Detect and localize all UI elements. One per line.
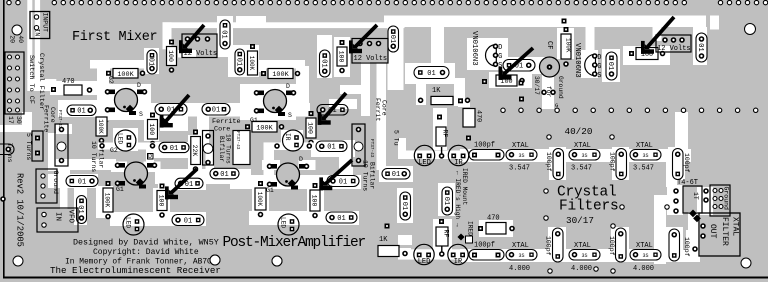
capacitor .01 vert b	[147, 50, 158, 74]
wire 100pf verts row1	[549, 147, 566, 180]
LED q3	[123, 214, 144, 235]
svg-text:IR: IR	[454, 258, 463, 266]
svg-text:← IREDʼs High →: ← IREDʼs High →	[454, 171, 461, 227]
svg-text:100pf: 100pf	[609, 152, 616, 172]
svg-text:01: 01	[337, 215, 345, 223]
capacitor stub left edge	[0, 144, 14, 155]
crystal XTAL2 3.547	[569, 150, 600, 161]
svg-text:3.547: 3.547	[571, 165, 592, 173]
svg-text:4.000: 4.000	[509, 265, 530, 273]
jumper box near RF2	[466, 236, 473, 243]
svg-text:01: 01	[220, 171, 228, 179]
svg-text:100pf: 100pf	[683, 237, 690, 257]
wire 01 col vert	[74, 188, 87, 225]
arrow A8	[319, 160, 352, 190]
svg-text:The Electroluminescent Receive: The Electroluminescent Receiver	[50, 265, 221, 276]
resistor 100K mixer1 lower	[96, 117, 107, 143]
wire arrowhead patch mixer1	[160, 114, 188, 131]
wire mixer2 right vert	[296, 66, 309, 104]
wire q4 riser	[264, 150, 275, 176]
wire 100pf verts row2	[548, 227, 566, 262]
svg-text:LED: LED	[418, 258, 431, 266]
wire vnfet2 blob	[581, 50, 598, 78]
wire 100 q4 vert	[307, 183, 324, 219]
svg-text:G: G	[597, 63, 601, 71]
capacitor 100pf row1 long	[469, 150, 504, 161]
svg-text:100: 100	[338, 51, 345, 63]
capacitor .01 q3 lower mid	[175, 178, 203, 189]
svg-text:IN: IN	[54, 212, 62, 221]
svg-text:100K: 100K	[256, 124, 273, 132]
pad vn1 drain2	[519, 97, 524, 102]
transistor VN0106N3 second	[585, 54, 602, 80]
capacitor .01 vert 400	[400, 192, 411, 220]
wire 470-2 vert	[458, 100, 470, 107]
wire mixer2 100K band	[250, 60, 305, 69]
svg-text:3S: 3S	[581, 253, 587, 259]
wire row2 right elbow	[686, 230, 700, 262]
svg-text:01: 01	[696, 43, 704, 51]
transistor Q2 mixer	[255, 90, 296, 117]
wire .01 b4 band	[311, 140, 355, 157]
resistor 100 q4	[310, 183, 320, 218]
wire vert 100 resistor mixer1	[144, 115, 159, 141]
pad band mixer1 right	[151, 144, 155, 148]
capacitor .01 vert vn2	[606, 52, 617, 80]
capacitor .01 vert c mixer2	[234, 49, 244, 75]
svg-text:1K: 1K	[432, 87, 441, 95]
transistor Q3 mixer	[116, 162, 157, 189]
svg-text:G1: G1	[116, 186, 124, 193]
wire q3 riser	[146, 148, 154, 164]
svg-text:D: D	[299, 156, 303, 163]
wire .01-CF band	[499, 57, 545, 74]
wire vert vnfet2 D	[586, 27, 595, 55]
capacitor .01 q4 out	[326, 212, 357, 223]
transistor Q4 mixer	[268, 163, 309, 190]
wire under 12V box1	[178, 50, 196, 58]
wire vert below .01 mixer2	[197, 116, 209, 145]
capacitor .01 q4 top	[316, 141, 347, 152]
wire vnfet1 blob	[467, 38, 508, 70]
svg-text:100pf: 100pf	[474, 242, 495, 250]
svg-text:100pf: 100pf	[474, 142, 495, 150]
svg-text:01: 01	[78, 178, 86, 186]
mount hole bottom-mid1	[210, 255, 220, 265]
svg-text:Ground: Ground	[557, 76, 564, 99]
svg-text:01: 01	[327, 144, 335, 152]
capacitor .01 q4 mid	[327, 176, 359, 187]
resistor 100 a	[167, 40, 177, 73]
svg-text:100pf: 100pf	[545, 236, 552, 256]
svg-text:INPUT: INPUT	[42, 13, 49, 33]
svg-text:LED: LED	[280, 217, 287, 228]
svg-text:01: 01	[392, 171, 400, 179]
svg-text:FT37-43: FT37-43	[57, 110, 62, 129]
svg-text:RF: RF	[442, 130, 449, 138]
svg-text:30: 30	[15, 116, 22, 124]
wire 100K top band mixer1	[90, 60, 148, 69]
wire vert 101 stadium 696	[693, 27, 707, 65]
mount hole top-left	[12, 25, 22, 35]
svg-text:01: 01	[442, 197, 450, 205]
wire 100K-561 back	[557, 28, 574, 59]
svg-text:XTAL: XTAL	[731, 217, 740, 236]
wire col 01-442	[438, 183, 455, 216]
wire 100K q3 vert	[96, 186, 113, 218]
svg-text:G2: G2	[107, 76, 114, 84]
svg-text:100pf: 100pf	[545, 152, 552, 172]
svg-text:17: 17	[7, 116, 14, 124]
capacitor .01 mixer1 out	[155, 104, 187, 116]
resistor 100 vn2	[629, 48, 665, 60]
transistor VN0106N3 first	[486, 44, 503, 70]
svg-text:XTAL: XTAL	[574, 142, 591, 150]
wire q3 leg patch right	[144, 162, 161, 173]
power connector 12 Volts first	[182, 34, 217, 58]
wire band 01-383	[379, 166, 413, 182]
svg-text:FT37-43: FT37-43	[235, 131, 240, 150]
capacitor .01 left of 1K2	[382, 169, 410, 180]
power connector 12 Volts second	[352, 39, 388, 64]
capacitor .01 vert 696	[696, 33, 707, 62]
ferrite core T2 mid strips	[352, 124, 365, 166]
arrow A7	[165, 169, 197, 199]
wire led-ir 40/20 corner	[398, 138, 406, 152]
capacitor .01 mixer2 in	[202, 104, 230, 116]
svg-text:Ground: Ground	[52, 171, 59, 195]
arrow A3	[349, 25, 377, 53]
capacitor .01 q3 out	[172, 215, 204, 226]
capacitor .01 to CF	[503, 60, 535, 72]
svg-text:3.547: 3.547	[633, 165, 654, 173]
wire rf2 vert	[433, 219, 452, 253]
resistor 100K mixer2 top	[261, 69, 300, 80]
wire band to arrow4	[329, 99, 357, 109]
arrow A4	[318, 93, 346, 125]
board bottom edge	[3, 277, 768, 279]
wire 12V3 up connector	[653, 26, 662, 41]
svg-text:01: 01	[427, 70, 435, 78]
svg-text:100K: 100K	[256, 192, 263, 207]
crystal XTAL2 4.000	[569, 250, 600, 261]
wire 470-3 back	[479, 220, 513, 237]
svg-text:3.547: 3.547	[509, 165, 530, 173]
pad band mixer2 right	[307, 144, 311, 148]
wire 100 box2 band	[623, 46, 670, 65]
capacitor .01 vert 442	[442, 187, 453, 215]
mount hole top-right	[745, 24, 756, 35]
svg-text:IRED: IRED	[467, 221, 474, 236]
capacitor .01 vert q3 col	[76, 196, 87, 224]
svg-text:Bifilar: Bifilar	[218, 136, 225, 162]
wire top rail band1	[163, 22, 405, 28]
power connector 12 Volts third	[656, 35, 691, 53]
svg-text:30/17: 30/17	[566, 215, 594, 226]
svg-text:Core: Core	[381, 100, 388, 116]
wire top right gap trace	[710, 16, 719, 30]
resistor 100K q3	[103, 181, 113, 219]
capacitor 100pf vert1 row1	[553, 149, 564, 180]
svg-text:Core: Core	[49, 107, 56, 123]
wire left low vert	[22, 112, 32, 132]
svg-text:100: 100	[307, 122, 314, 134]
svg-text:XTAL: XTAL	[636, 242, 653, 250]
resistor 100K vn	[561, 34, 571, 59]
svg-text:30/17: 30/17	[533, 76, 540, 95]
svg-text:01: 01	[184, 217, 192, 225]
svg-text:01: 01	[606, 62, 614, 70]
wire vert 100 12Vbox2	[334, 37, 350, 77]
wire ferrite down	[58, 160, 70, 176]
svg-text:XTAL: XTAL	[574, 242, 591, 250]
wire 40/20 right riser	[675, 112, 688, 152]
svg-text:40/20: 40/20	[565, 126, 593, 137]
svg-text:Crystal Filter: Crystal Filter	[37, 53, 45, 110]
svg-text:4.000: 4.000	[633, 265, 654, 273]
wire led-ir 30/17 corner	[398, 235, 412, 245]
transistor Q1 mixer	[106, 89, 147, 116]
svg-text:Post-MixerAmplifier: Post-MixerAmplifier	[223, 235, 366, 251]
wire LED mixer1 patch	[113, 128, 138, 151]
wire rf1 vert	[433, 108, 447, 150]
svg-text:IR: IR	[284, 133, 291, 141]
svg-text:10 Turns: 10 Turns	[90, 141, 97, 172]
wire mixer2 in band	[230, 103, 310, 117]
wire 12Vbox2 left verts	[361, 62, 370, 116]
svg-text:01: 01	[220, 30, 228, 38]
pad on top rail	[562, 19, 567, 24]
wire postamp1 bottom band	[110, 212, 206, 226]
svg-text:FT37-43: FT37-43	[369, 139, 374, 158]
wire ferrite-mixer band	[56, 124, 72, 134]
svg-text:LED: LED	[125, 217, 132, 228]
resistor 100K mixer1 top	[106, 69, 145, 79]
svg-text:Copyright: David White: Copyright: David White	[93, 248, 199, 257]
svg-text:LED: LED	[418, 159, 431, 167]
top hole row	[7, 0, 768, 4]
arrow A1	[179, 25, 204, 53]
capacitor 100pf vert2 row1	[616, 149, 627, 180]
resistor 22K	[191, 137, 201, 165]
svg-text:01: 01	[170, 145, 178, 153]
wire 1K2 to LED	[398, 248, 411, 259]
svg-text:CF: CF	[545, 41, 553, 49]
resistor RF choke second	[436, 227, 448, 246]
svg-text:12 Volts: 12 Volts	[657, 45, 691, 53]
svg-text:01: 01	[147, 58, 155, 66]
wire xtal row1 band	[460, 149, 691, 162]
svg-text:D: D	[137, 82, 141, 89]
svg-text:01: 01	[400, 202, 408, 210]
resistor RF choke first	[436, 127, 446, 146]
arrow A2	[160, 95, 189, 128]
wire CF ground col	[542, 74, 554, 109]
wire 470 band	[50, 81, 110, 95]
svg-text:S: S	[597, 72, 601, 80]
capacitor .01 mixer1 in	[67, 105, 96, 116]
resistor 100 mixer1	[148, 113, 158, 146]
pad diamond near RF2	[457, 233, 464, 240]
scattered holes	[544, 135, 669, 273]
wire filterout vert	[688, 212, 700, 258]
svg-text:RF: RF	[443, 230, 450, 238]
svg-text:3S: 3S	[581, 153, 587, 159]
mount hole bottom-left	[13, 256, 23, 266]
capacitor .01 vert a	[220, 20, 231, 49]
LED 40/20	[414, 145, 434, 167]
wire .01 vert 606	[602, 49, 620, 82]
resistor 100K q4	[255, 181, 266, 217]
svg-text:01: 01	[212, 107, 220, 115]
svg-text:01: 01	[234, 58, 242, 66]
wire xtal row2 band	[460, 249, 695, 262]
mount hole bottom-mid2	[272, 256, 282, 266]
resistor 100 mixer2	[306, 111, 316, 145]
wire t4 down vert	[654, 206, 666, 264]
wire top long rail right	[384, 16, 706, 28]
wire q4 leg patch right	[299, 160, 316, 170]
wire band mixer2 mid	[340, 85, 362, 94]
wire lower 01 band	[158, 177, 206, 190]
arrow A5	[499, 48, 534, 80]
mount hole bottom-mid2 top	[272, 256, 282, 266]
connector Ground right	[710, 185, 730, 216]
svg-text:100: 100	[167, 50, 174, 62]
wire vert 101 right of 12V box1	[217, 16, 233, 57]
wire vert to mixer band	[431, 27, 444, 65]
connector VFO IN	[37, 208, 78, 232]
wire left low elbow	[0, 125, 24, 132]
svg-text:01: 01	[77, 108, 85, 116]
wire IR mixer2 band	[264, 142, 314, 150]
wire ground band	[48, 159, 116, 170]
pad band mixer2 left	[275, 144, 279, 148]
svg-text:100: 100	[148, 123, 155, 135]
svg-text:Ground: Ground	[723, 187, 730, 211]
svg-text:01: 01	[185, 181, 193, 189]
svg-text:G: G	[555, 102, 558, 109]
wire postamp mid band	[230, 175, 361, 189]
svg-text:D: D	[597, 54, 601, 62]
connector XTAL FILTER OUT	[693, 213, 740, 256]
svg-text:Rev2 10/1/2005: Rev2 10/1/2005	[15, 173, 25, 247]
capacitor 100pf vert3 row2	[669, 229, 680, 261]
resistor 100K ferrite row	[245, 122, 284, 133]
capacitor .01 mixer2 out	[317, 105, 348, 116]
wire IR mixer2 patch	[281, 130, 303, 150]
svg-text:XTAL: XTAL	[512, 142, 529, 150]
capacitor 100pf row2 long	[469, 250, 504, 261]
svg-text:01: 01	[388, 35, 396, 43]
svg-text:1T: 1T	[692, 192, 699, 200]
svg-text:G1: G1	[266, 187, 274, 194]
pad band mixer1 left	[100, 144, 104, 148]
wire mixer2 101 col	[228, 45, 259, 77]
svg-text:VFO: VFO	[67, 210, 75, 224]
mount hole bottom-right	[741, 258, 751, 268]
wire 22K col	[150, 142, 190, 158]
svg-text:OUT: OUT	[708, 224, 717, 239]
svg-text:100pf: 100pf	[683, 153, 690, 173]
wire col 01-400	[397, 188, 413, 223]
svg-text:Designed by David White, WN5Y: Designed by David White, WN5Y	[73, 238, 219, 248]
resistor 470 second	[463, 109, 475, 128]
svg-text:G: G	[498, 53, 502, 61]
IR mixer2	[283, 130, 304, 151]
svg-text:100K: 100K	[117, 71, 134, 79]
wire 12V box1 rail vert	[163, 22, 172, 49]
svg-text:D: D	[498, 44, 502, 52]
svg-text:01: 01	[76, 205, 84, 213]
wire top rail left pair vertical	[27, 0, 32, 80]
middle right hole row	[501, 108, 758, 112]
svg-text:Switch To CF: Switch To CF	[27, 55, 35, 104]
wire 12Vbox2 long vert	[377, 63, 387, 170]
wire 100K q4 vert	[252, 181, 269, 217]
wire q4 leg patch left	[262, 160, 280, 170]
svg-text:3S: 3S	[518, 253, 524, 259]
wire mixer1 out band	[148, 103, 232, 117]
wire LED mixer1 band	[98, 143, 160, 150]
svg-text:Core: Core	[214, 126, 230, 134]
svg-text:IRED Mount: IRED Mount	[461, 168, 468, 205]
wire t4 connect	[654, 195, 675, 207]
LED 30/17	[414, 244, 434, 266]
wire vert connect 470-mixer	[97, 68, 110, 104]
svg-text:10 Turns: 10 Turns	[362, 160, 369, 191]
wire T3 riser	[206, 152, 215, 170]
arrow A6	[641, 17, 674, 54]
ferrite core T3 body	[233, 131, 250, 165]
capacitor .01 h 414	[414, 67, 449, 79]
pad ring CF b	[551, 90, 555, 94]
capacitor 100pf vert2 row2	[616, 228, 627, 262]
capacitor 100pf vert1 row2	[553, 228, 564, 262]
svg-text:S: S	[139, 111, 143, 118]
wire row1 right elbow	[666, 161, 677, 187]
wire top entry	[236, 16, 266, 28]
connector J1 INPUT IN	[30, 12, 50, 39]
wire postamp1 band	[48, 174, 98, 188]
svg-text:D: D	[286, 83, 290, 90]
wire vert .01 12Vbox2	[317, 35, 332, 78]
svg-text:XTAL: XTAL	[636, 142, 653, 150]
IR detector 30/17	[448, 244, 468, 266]
crystal XTAL1 3.547	[506, 150, 537, 161]
svg-text:12 Volts: 12 Volts	[354, 55, 388, 63]
wire q3 out band	[155, 169, 251, 184]
IR detector 40/20	[448, 145, 468, 167]
svg-text:5 Tu: 5 Tu	[393, 130, 400, 146]
connector J2 crystal filter switch	[5, 52, 24, 114]
svg-text:100pf: 100pf	[608, 236, 615, 256]
capacitor .01 q3-q4 mid	[210, 168, 239, 179]
wire 100 box1 band	[489, 72, 532, 88]
wire q3 leg patch left	[111, 162, 127, 173]
svg-text:01: 01	[319, 59, 327, 67]
svg-text:Filters: Filters	[559, 199, 619, 215]
svg-text:3S: 3S	[642, 253, 648, 259]
svg-text:100K: 100K	[104, 193, 111, 208]
ferrite core T3 strip	[203, 131, 214, 166]
svg-text:1K: 1K	[379, 236, 388, 244]
wire led-ir 30/17 band	[398, 249, 475, 259]
mount hole bottom-mid1 top	[210, 255, 220, 265]
svg-text:10 Turns: 10 Turns	[225, 134, 232, 164]
svg-text:IN: IN	[34, 29, 41, 37]
svg-text:Ferrit: Ferrit	[374, 98, 381, 122]
